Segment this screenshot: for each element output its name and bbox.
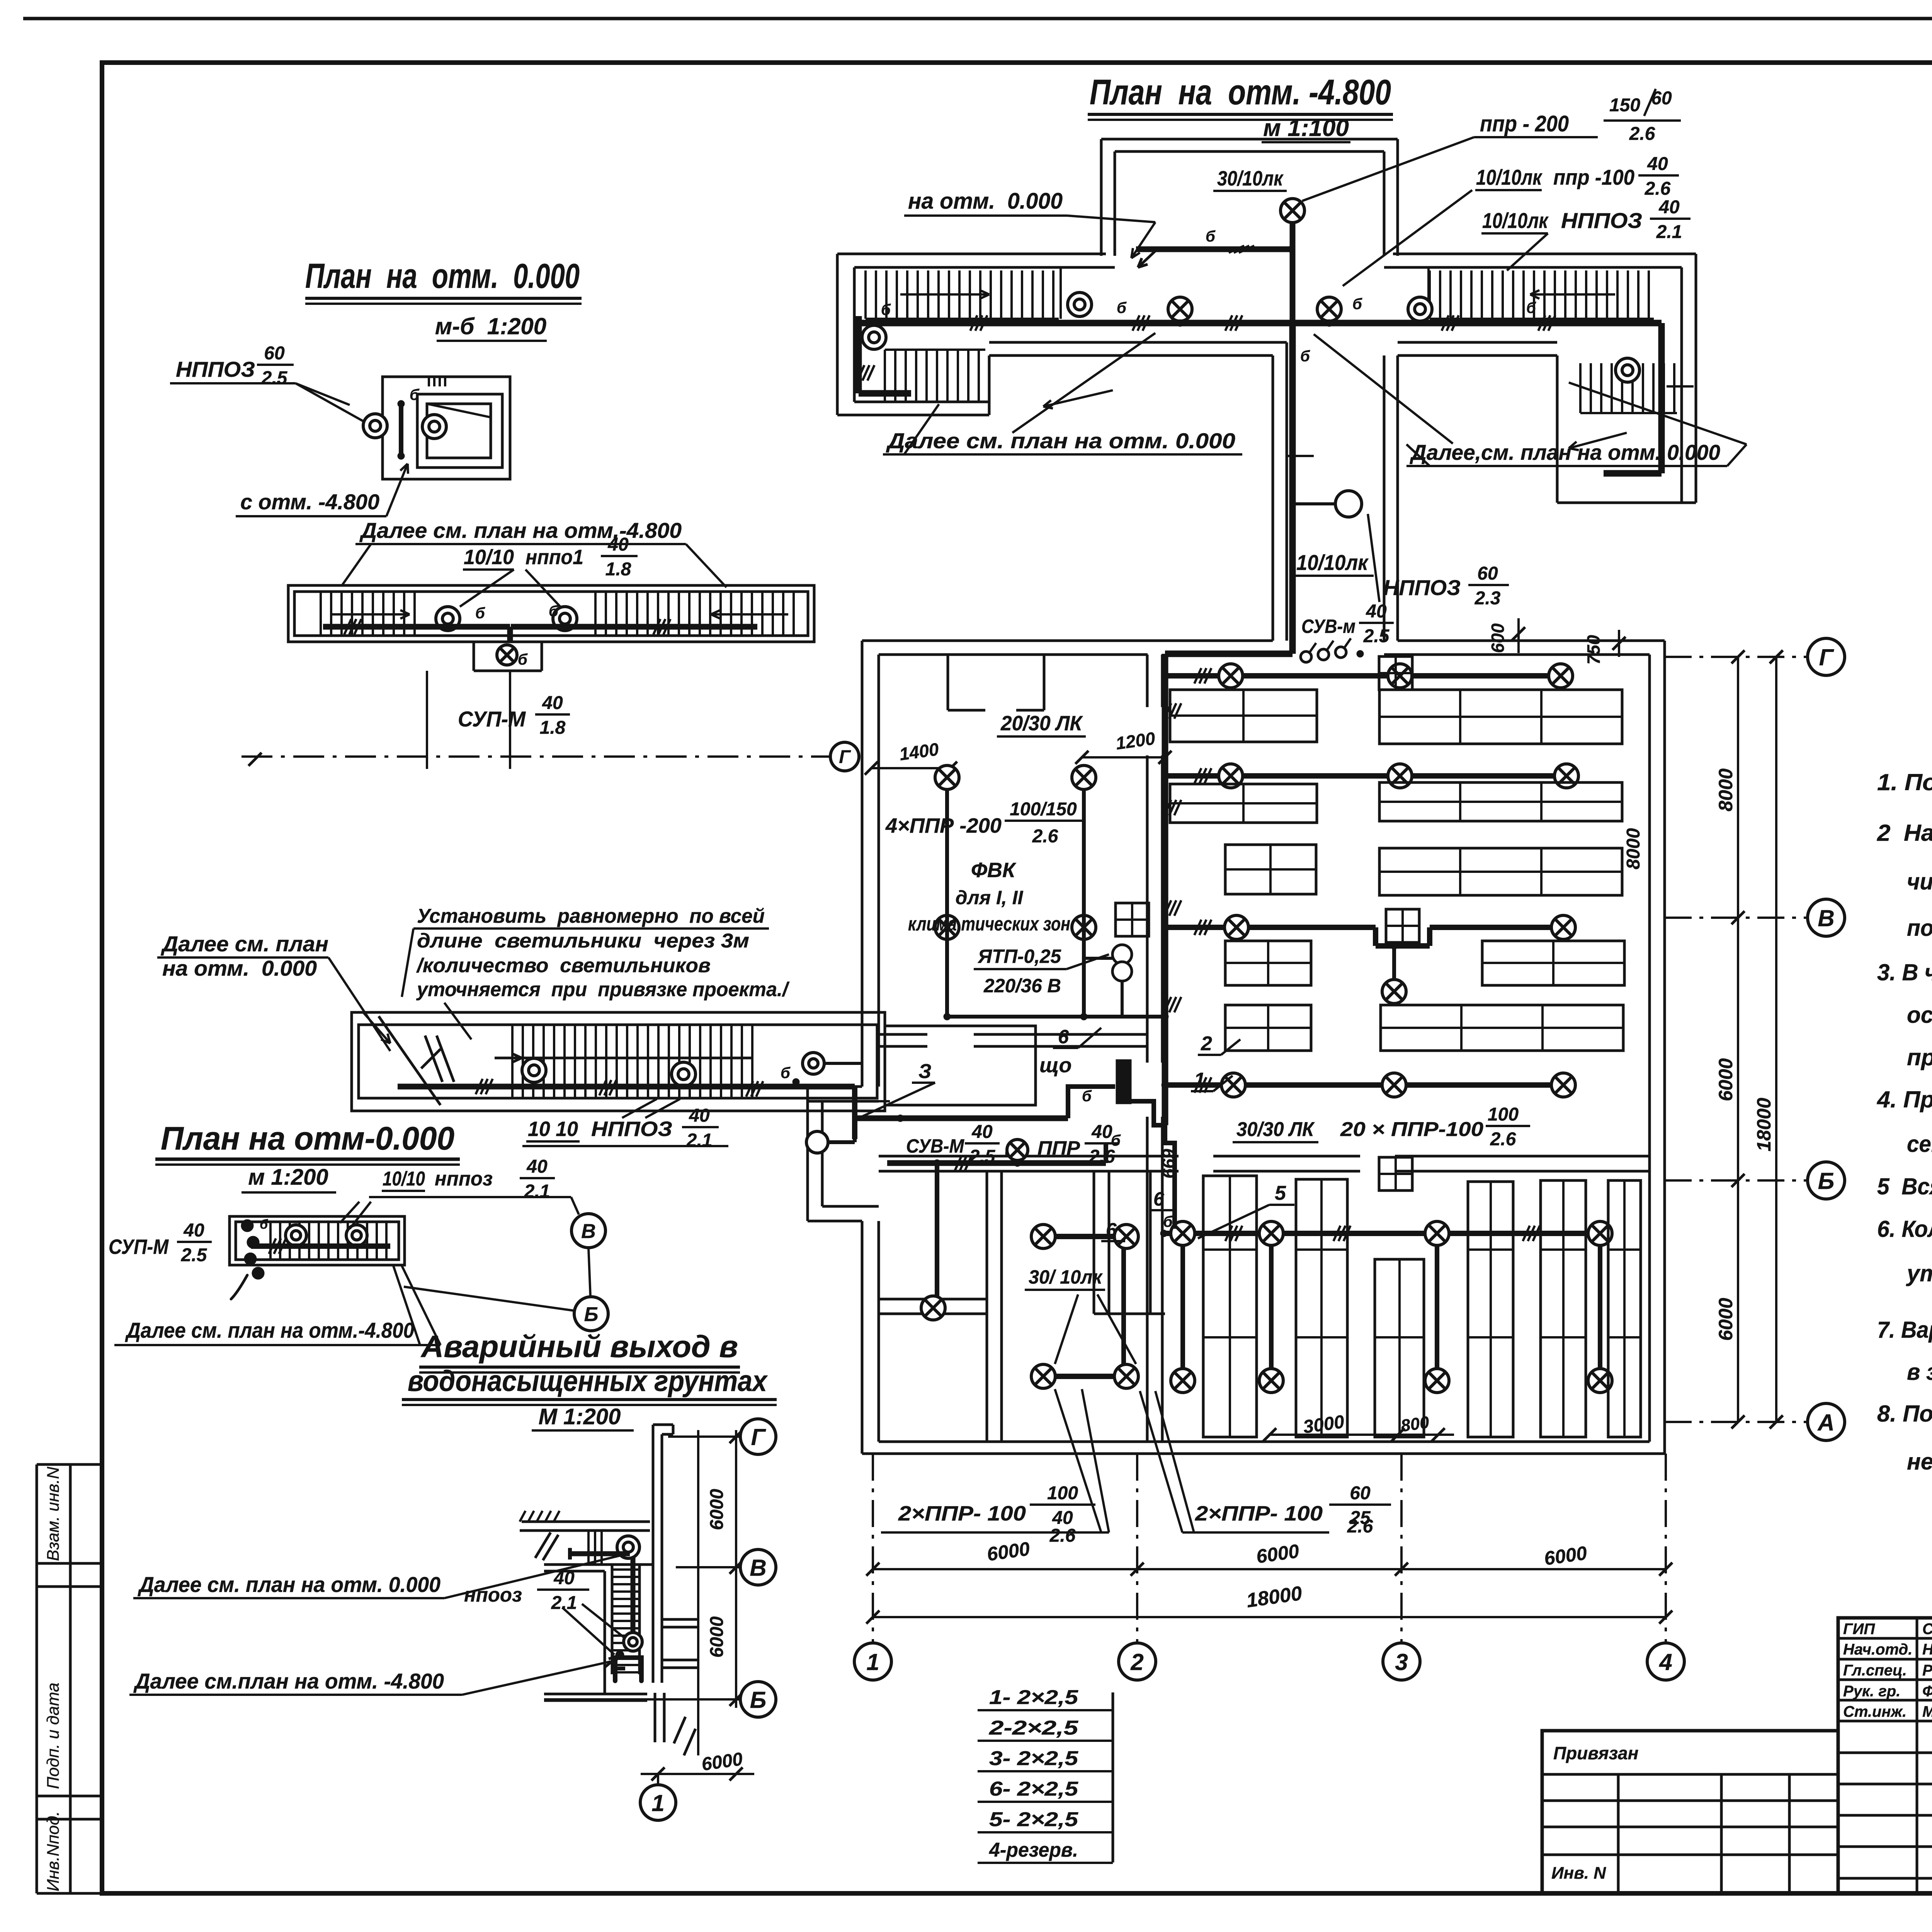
svg-text:В: В	[1818, 905, 1834, 931]
svg-text:40: 40	[607, 534, 629, 555]
svg-text:Г: Г	[839, 747, 851, 767]
svg-text:4-резерв.: 4-резерв.	[989, 1839, 1078, 1861]
svg-text:40: 40	[542, 693, 563, 713]
svg-text:2-2×2,5: 2-2×2,5	[989, 1717, 1079, 1739]
svg-text:Гл.спец.: Гл.спец.	[1843, 1662, 1907, 1679]
svg-text:З: З	[918, 1060, 931, 1083]
svg-text:б: б	[1082, 1088, 1092, 1105]
svg-text:Смирнов: Смирнов	[1922, 1621, 1932, 1638]
svg-text:2.1: 2.1	[686, 1130, 713, 1151]
svg-text:б: б	[781, 1065, 791, 1082]
svg-text:б: б	[1117, 299, 1127, 316]
svg-text:60: 60	[264, 343, 285, 364]
svg-text:НППОЗ: НППОЗ	[1383, 575, 1461, 600]
svg-text:Инв. N: Инв. N	[1551, 1864, 1606, 1883]
svg-text:нппо1: нппо1	[526, 546, 583, 569]
svg-text:1: 1	[866, 1649, 879, 1675]
svg-text:2.5: 2.5	[969, 1146, 996, 1167]
svg-text:СУП-М: СУП-М	[458, 707, 526, 731]
svg-text:10/10лк: 10/10лк	[1296, 550, 1369, 575]
svg-text:План на отм. -4.800: План на отм. -4.800	[1090, 73, 1391, 112]
svg-text:Г: Г	[1819, 645, 1835, 670]
svg-text:ГИП: ГИП	[1843, 1621, 1875, 1638]
svg-text:Райцын: Райцын	[1922, 1662, 1932, 1679]
svg-text:1. Пояснительную записку см.: 1. Пояснительную записку см. на стр. 3	[1877, 769, 1932, 795]
svg-text:сети см. на листах 1, 2,3,4: сети см. на листах 1, 2,3,4.	[1907, 1131, 1932, 1157]
svg-text:600: 600	[1488, 623, 1508, 653]
svg-text:в зависимости от грунтовых: в зависимости от грунтовых условий.	[1907, 1359, 1932, 1385]
svg-text:2.3: 2.3	[1475, 588, 1501, 609]
svg-text:30/ 10лк: 30/ 10лк	[1029, 1266, 1103, 1288]
svg-text:2.6: 2.6	[1629, 124, 1655, 144]
svg-text:100: 100	[1047, 1483, 1078, 1503]
svg-text:2×ППР- 100: 2×ППР- 100	[1195, 1502, 1323, 1525]
svg-text:40: 40	[1647, 154, 1668, 174]
svg-text:б: б	[1300, 348, 1310, 365]
svg-text:для I, II: для I, II	[956, 887, 1024, 908]
svg-text:150: 150	[1609, 95, 1640, 116]
svg-text:1.8: 1.8	[605, 559, 631, 580]
svg-text:2.6: 2.6	[1049, 1526, 1076, 1546]
svg-text:ппр - 200: ппр - 200	[1480, 111, 1569, 136]
svg-text:Далее см. план на отм. 0.000: Далее см. план на отм. 0.000	[138, 1572, 440, 1597]
svg-text:Привязан: Привязан	[1553, 1743, 1638, 1763]
svg-text:м-б 1:200: м-б 1:200	[435, 313, 546, 339]
svg-text:М 1:200: М 1:200	[539, 1404, 621, 1429]
svg-text:Ст.инж.: Ст.инж.	[1843, 1703, 1906, 1720]
svg-text:Взам. инв.N: Взам. инв.N	[44, 1467, 63, 1561]
svg-text:20/30 ЛК: 20/30 ЛК	[1000, 712, 1083, 735]
svg-text:8000: 8000	[1715, 769, 1736, 811]
svg-text:на отм. 0.000: на отм. 0.000	[162, 956, 317, 980]
svg-text:б: б	[518, 651, 528, 668]
svg-text:ППР: ППР	[1037, 1137, 1080, 1159]
svg-text:Далее см. план на отм. 0.000: Далее см. план на отм. 0.000	[886, 429, 1235, 453]
svg-text:8000: 8000	[1623, 828, 1644, 869]
svg-text:40: 40	[553, 1568, 575, 1588]
svg-text:помещения: помещения	[1907, 915, 1932, 941]
svg-text:б: б	[410, 386, 420, 403]
svg-text:Фельдман: Фельдман	[1922, 1683, 1932, 1700]
svg-text:6. Количество светильников д: 6. Количество светильников для аварийног…	[1877, 1216, 1932, 1242]
svg-text:ФВК: ФВК	[971, 859, 1017, 882]
svg-text:Маслова: Маслова	[1922, 1703, 1932, 1720]
svg-text:2.6: 2.6	[1490, 1129, 1516, 1150]
svg-text:5- 2×2,5: 5- 2×2,5	[989, 1808, 1078, 1831]
svg-text:20 × ППР-100: 20 × ППР-100	[1340, 1118, 1483, 1141]
svg-text:40: 40	[1658, 197, 1680, 218]
svg-text:40: 40	[526, 1156, 548, 1177]
svg-text:10/10: 10/10	[464, 546, 514, 569]
svg-text:6000: 6000	[707, 1489, 727, 1530]
svg-text:Аварийный выход в: Аварийный выход в	[420, 1329, 738, 1364]
svg-text:18000: 18000	[1753, 1098, 1775, 1151]
svg-text:10/10лк: 10/10лк	[1476, 165, 1543, 189]
svg-text:1: 1	[651, 1790, 664, 1816]
svg-text:Немцова: Немцова	[1922, 1641, 1932, 1658]
svg-text:Далее см. план на отм.-4.800: Далее см. план на отм.-4.800	[125, 1318, 414, 1342]
svg-text:щo: щo	[1039, 1054, 1071, 1077]
svg-text:2.5: 2.5	[181, 1245, 207, 1265]
svg-text:м 1:200: м 1:200	[248, 1165, 328, 1190]
svg-text:2.6: 2.6	[1645, 179, 1671, 199]
svg-text:2.1: 2.1	[524, 1181, 550, 1202]
svg-text:60: 60	[1477, 563, 1498, 584]
svg-text:2×ППР- 100: 2×ППР- 100	[898, 1502, 1026, 1525]
svg-text:НППОЗ: НППОЗ	[591, 1117, 672, 1141]
svg-text:5 Вся сеть освещения выпол: 5 Вся сеть освещения выполняется кабелем…	[1877, 1173, 1932, 1199]
svg-text:нппоз: нппоз	[435, 1168, 493, 1190]
svg-text:м 1:100: м 1:100	[1263, 115, 1349, 141]
svg-text:числитель означает мощность: числитель означает мощность лампы для ск…	[1907, 869, 1932, 895]
svg-text:План на отм-0.000: План на отм-0.000	[161, 1120, 454, 1156]
svg-text:40: 40	[1091, 1122, 1112, 1142]
svg-text:6000: 6000	[707, 1616, 727, 1658]
svg-text:негорючих материалов в негор: негорючих материалов в негорючей упаковк…	[1907, 1449, 1932, 1475]
svg-text:10 10: 10 10	[528, 1117, 578, 1141]
svg-text:А: А	[1817, 1410, 1834, 1435]
svg-text:5: 5	[1275, 1182, 1286, 1204]
svg-text:/количество светильников: /количество светильников	[416, 954, 711, 977]
svg-text:Рук. гр.: Рук. гр.	[1843, 1683, 1900, 1700]
svg-text:40: 40	[1366, 601, 1387, 622]
svg-text:10/10лк: 10/10лк	[1482, 208, 1549, 233]
svg-text:нпооз: нпооз	[464, 1584, 522, 1606]
svg-text:6: 6	[1106, 1219, 1117, 1241]
svg-text:2.6: 2.6	[1347, 1516, 1373, 1537]
svg-text:с отм. -4.800: с отм. -4.800	[240, 490, 379, 514]
svg-text:при расположении в нем склад: при расположении в нем складских устройс…	[1907, 1044, 1932, 1070]
svg-text:клима тических зон: клима тических зон	[908, 913, 1070, 935]
svg-text:10/10: 10/10	[383, 1168, 425, 1190]
svg-text:6- 2×2,5: 6- 2×2,5	[989, 1778, 1078, 1800]
svg-text:8. Помещение склада запроект: 8. Помещение склада запроектирована для …	[1877, 1401, 1932, 1427]
svg-text:4: 4	[1659, 1649, 1672, 1675]
svg-text:Б: Б	[1818, 1168, 1834, 1194]
svg-text:б: б	[881, 301, 891, 318]
svg-text:Нач.отд.: Нач.отд.	[1843, 1641, 1912, 1658]
svg-text:2.5: 2.5	[1363, 626, 1390, 646]
svg-text:ЯТП-0,25: ЯТП-0,25	[977, 946, 1061, 967]
svg-text:НППОЗ: НППОЗ	[1561, 208, 1642, 233]
svg-text:НППОЗ: НППОЗ	[176, 357, 255, 381]
svg-text:2.6: 2.6	[1089, 1146, 1115, 1167]
svg-text:100/150: 100/150	[1010, 799, 1077, 820]
svg-text:В: В	[581, 1220, 596, 1243]
svg-text:6000: 6000	[1715, 1298, 1736, 1341]
svg-text:Г: Г	[751, 1424, 767, 1450]
svg-text:Далее см. план: Далее см. план	[161, 932, 328, 956]
svg-text:60: 60	[1350, 1483, 1371, 1503]
svg-text:2.5: 2.5	[261, 368, 288, 388]
svg-text:Установить равномерно по все: Установить равномерно по всей	[417, 905, 765, 927]
svg-text:4×ППР -200: 4×ППР -200	[885, 814, 1002, 837]
svg-text:6: 6	[1153, 1188, 1165, 1210]
svg-text:Далее,см. план на отм. 0.000: Далее,см. план на отм. 0.000	[1410, 440, 1720, 464]
svg-text:3. В числителе дроби минимал: 3. В числителе дроби минимальной нормиру…	[1877, 959, 1932, 985]
svg-text:2: 2	[1130, 1649, 1143, 1675]
svg-text:Далее см. план на отм.-4.800: Далее см. план на отм.-4.800	[359, 518, 682, 543]
svg-text:220/36 В: 220/36 В	[983, 975, 1061, 997]
svg-text:2 На плане мощность лампы: 2 На плане мощность лампы указана дробью…	[1877, 820, 1932, 846]
svg-text:водонасыщенных грунтах: водонасыщенных грунтах	[408, 1365, 768, 1398]
svg-text:2.6: 2.6	[1032, 826, 1058, 847]
svg-text:Далее см.план на отм. -4.800: Далее см.план на отм. -4.800	[133, 1669, 444, 1693]
svg-text:длине светильники через 3м: длине светильники через 3м	[417, 930, 749, 952]
svg-text:3: 3	[1395, 1649, 1408, 1675]
svg-text:В: В	[750, 1555, 766, 1581]
svg-text:на отм. 0.000: на отм. 0.000	[908, 189, 1063, 214]
svg-text:2.1: 2.1	[1656, 222, 1682, 242]
svg-text:30/10лк: 30/10лк	[1217, 167, 1284, 190]
svg-text:4. Принципиальную однолинейну: 4. Принципиальную однолинейную схему рас…	[1877, 1087, 1932, 1112]
svg-text:ппр -100: ппр -100	[1553, 165, 1634, 189]
svg-text:уточняется при привязке про: уточняется при привязке проекта.	[1906, 1260, 1932, 1286]
svg-text:Б: Б	[750, 1687, 766, 1713]
svg-text:б: б	[1352, 296, 1362, 313]
svg-text:40: 40	[971, 1122, 993, 1142]
svg-text:б: б	[1206, 228, 1216, 245]
svg-text:б: б	[260, 1217, 268, 1232]
svg-text:1: 1	[1194, 1069, 1205, 1091]
svg-text:1.8: 1.8	[540, 718, 566, 738]
svg-text:40: 40	[183, 1220, 204, 1241]
svg-text:б: б	[1526, 299, 1536, 316]
svg-text:800: 800	[1400, 1413, 1430, 1435]
svg-text:100: 100	[1488, 1104, 1519, 1125]
svg-text:СУВ-м: СУВ-м	[1301, 616, 1355, 637]
svg-text:3- 2×2,5: 3- 2×2,5	[989, 1747, 1078, 1770]
svg-text:750: 750	[1583, 635, 1604, 665]
svg-text:2: 2	[1201, 1032, 1212, 1055]
svg-text:30/30 ЛК: 30/30 ЛК	[1236, 1118, 1315, 1141]
svg-text:1- 2×2,5: 1- 2×2,5	[989, 1686, 1078, 1709]
svg-text:б: б	[475, 605, 485, 622]
svg-text:б: б	[1163, 1213, 1173, 1230]
svg-text:уточняется при привязке прое: уточняется при привязке проекта./	[416, 978, 790, 1001]
svg-text:б: б	[549, 603, 559, 620]
svg-text:7. Вариант планировки аварий: 7. Вариант планировки аварийного выхода …	[1877, 1317, 1932, 1343]
svg-text:СУП-М: СУП-М	[109, 1235, 169, 1259]
svg-text:669: 669	[1158, 1149, 1179, 1179]
svg-text:План на отм. 0.000: План на отм. 0.000	[305, 257, 580, 296]
svg-text:СУВ-М: СУВ-М	[906, 1135, 964, 1157]
svg-text:Подп. и дата: Подп. и дата	[44, 1683, 63, 1789]
svg-text:Б: Б	[584, 1303, 599, 1326]
svg-text:освещенности указана освещен: освещенности указана освещенность помеще…	[1907, 1002, 1932, 1028]
svg-text:40: 40	[689, 1105, 710, 1126]
svg-text:6: 6	[1058, 1026, 1069, 1048]
svg-text:Инв.Nпод.: Инв.Nпод.	[44, 1811, 63, 1891]
svg-text:6000: 6000	[1715, 1058, 1736, 1101]
